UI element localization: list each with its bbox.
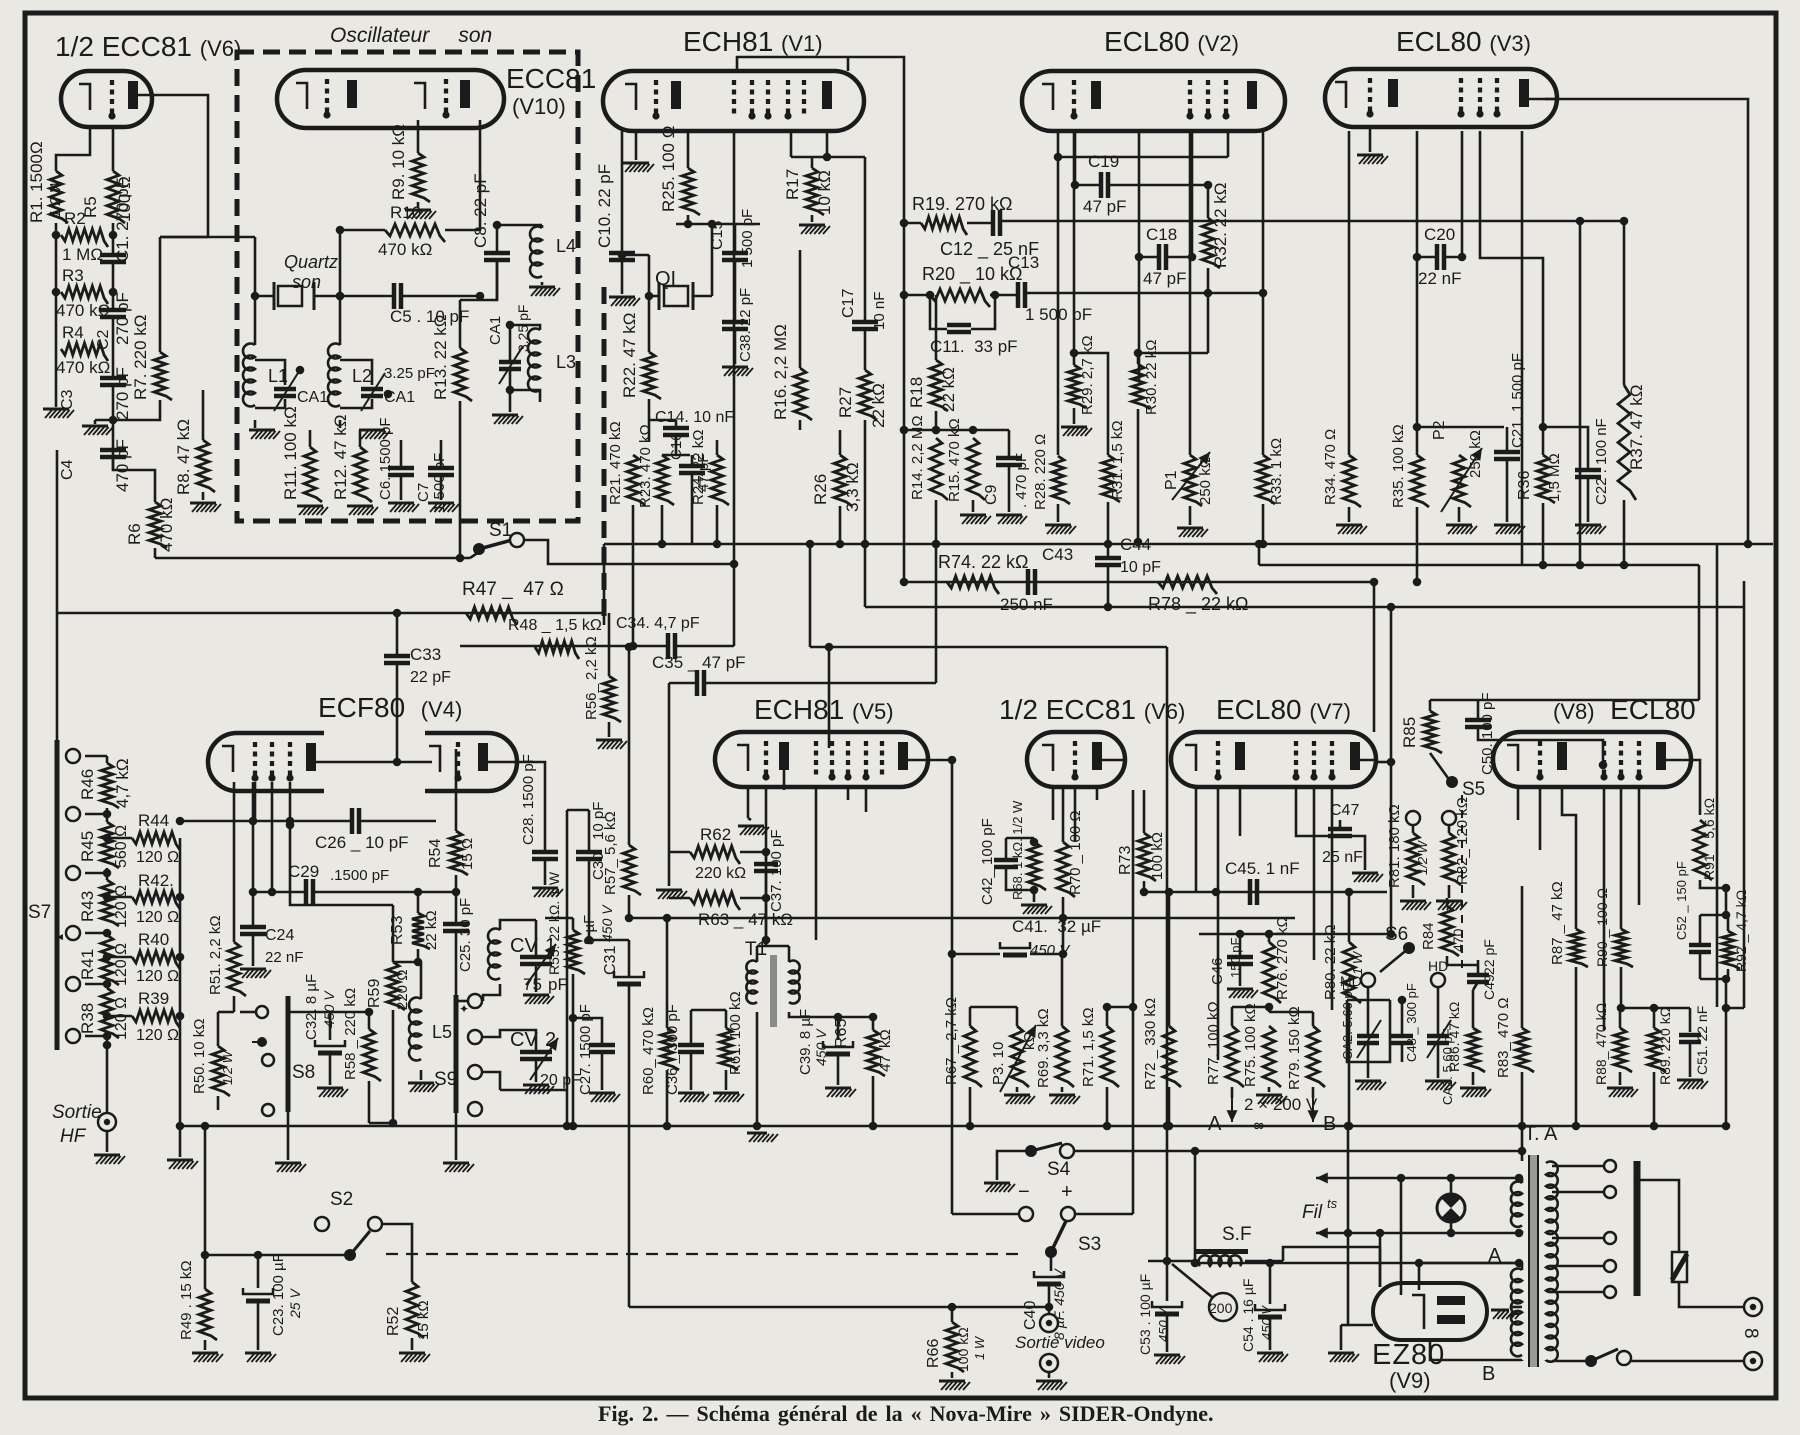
resistor R70 — [1057, 842, 1075, 897]
wire R5-C1 node — [112, 223, 115, 255]
svg-text:Fil: Fil — [1302, 1202, 1323, 1223]
capacitor C14 — [663, 426, 689, 431]
svg-text:R41: R41 — [78, 949, 97, 980]
potentiometer P1 — [1184, 455, 1202, 506]
svg-text:B: B — [1323, 1113, 1336, 1135]
svg-text:R36: R36 — [1516, 471, 1533, 500]
wire R20 row — [904, 294, 930, 297]
svg-text:R12. 47 kΩ: R12. 47 kΩ — [331, 415, 350, 500]
svg-text:25 nF: 25 nF — [1322, 849, 1363, 866]
resistor R13 — [454, 348, 472, 401]
resistor R19 — [921, 217, 967, 235]
svg-text:S1: S1 — [489, 520, 512, 541]
wire A line — [1419, 1262, 1519, 1265]
wire S1 to R13 node — [470, 552, 479, 558]
wire C41 row — [952, 953, 1000, 956]
ground S8 — [275, 1162, 301, 1165]
wire V2 grid drop b — [1138, 131, 1141, 380]
wire C34 row right — [675, 645, 734, 648]
svg-text:25 V: 25 V — [287, 1288, 303, 1319]
svg-text:22 kΩ: 22 kΩ — [423, 910, 440, 950]
svg-text:R69. 3,3 kΩ: R69. 3,3 kΩ — [1035, 1008, 1052, 1088]
ground L2 — [359, 429, 385, 432]
ground R29 — [1061, 426, 1087, 429]
svg-text:270 pF: 270 pF — [113, 367, 132, 420]
svg-text:100 kΩ: 100 kΩ — [955, 1327, 971, 1372]
svg-text:C35 _ 47 pF: C35 _ 47 pF — [652, 653, 746, 672]
svg-text:pF: pF — [548, 975, 568, 994]
svg-text:R17: R17 — [783, 169, 802, 200]
transformer TA core — [1530, 1155, 1537, 1367]
svg-text:R33. 1 kΩ: R33. 1 kΩ — [1268, 438, 1285, 505]
capacitor C30 — [576, 850, 602, 855]
capacitor C40 — [1034, 1271, 1064, 1277]
svg-text:S2: S2 — [330, 1189, 353, 1210]
wire R56 — [608, 613, 611, 676]
wire V2 grid drop c — [1191, 131, 1194, 257]
svg-text:C7: C7 — [415, 483, 432, 502]
S7 contact 3 — [66, 866, 80, 880]
wire CA2a box — [1367, 987, 1370, 1036]
wire C15 top — [676, 223, 760, 226]
capacitor C37 — [754, 862, 778, 867]
wire R92 — [1727, 915, 1730, 931]
svg-text:C43: C43 — [1042, 545, 1073, 564]
S7 contact 1 — [66, 749, 80, 763]
wire R14 bot — [935, 500, 938, 544]
wire bus y613 left drop — [56, 613, 59, 756]
wire main bus y613 — [57, 612, 604, 615]
capacitor C32 — [315, 1040, 345, 1046]
ground V5 cathode — [738, 825, 764, 828]
svg-text:T. A: T. A — [1524, 1123, 1558, 1145]
wire heater bus — [1379, 1247, 1382, 1287]
capacitor C48 — [1391, 1034, 1413, 1039]
tube ECL80 V7 — [1171, 732, 1376, 787]
wire C44 — [1107, 544, 1110, 558]
ground sortie video — [1048, 1372, 1051, 1378]
wire S2 feed — [205, 1254, 350, 1257]
resistor R5 — [107, 171, 125, 223]
svg-text:C31: C31 — [602, 946, 619, 975]
svg-text:8: 8 — [1740, 1328, 1761, 1339]
ground R66 — [939, 1380, 965, 1383]
svg-text:560 Ω: 560 Ω — [113, 825, 130, 868]
wire L3 net — [509, 340, 512, 362]
resistor R2 — [61, 229, 108, 247]
svg-text:Oscillateur son: Oscillateur son — [330, 24, 492, 47]
ground C9 — [996, 514, 1022, 517]
ground C46 — [1239, 964, 1242, 986]
svg-text:L4: L4 — [556, 236, 576, 256]
capacitor C4 — [100, 448, 126, 453]
capacitor C11 — [947, 323, 971, 328]
wire R38 net — [85, 983, 107, 986]
svg-text:R71. 1,5 kΩ: R71. 1,5 kΩ — [1080, 1007, 1097, 1087]
svg-text:C18: C18 — [1146, 225, 1177, 244]
lamp indicator — [1437, 1194, 1465, 1222]
svg-text:120 Ω: 120 Ω — [113, 885, 130, 928]
svg-text:C39. 8 µF: C39. 8 µF — [797, 1009, 814, 1075]
svg-text:120 Ω: 120 Ω — [136, 849, 179, 866]
svg-text:22 nF: 22 nF — [1418, 269, 1461, 288]
svg-text:R6: R6 — [125, 523, 144, 545]
wire R88 — [1619, 1008, 1622, 1028]
resistor R63 — [690, 892, 740, 910]
svg-text:S5: S5 — [1462, 779, 1485, 800]
wire R55 — [572, 918, 575, 930]
wire L1 column — [254, 237, 257, 345]
wire bus y647 stair — [810, 646, 1167, 649]
wire grid riser V5a — [828, 647, 831, 748]
resistor R86 — [1467, 1028, 1485, 1072]
ground R56 — [596, 739, 622, 742]
S9 contact bot — [468, 1102, 482, 1116]
svg-text:ECH81 (V5): ECH81 (V5) — [754, 694, 894, 725]
resistor R22 — [643, 352, 661, 399]
svg-text:470 pF: 470 pF — [113, 439, 132, 492]
wire bus y918 — [905, 917, 1295, 920]
svg-text:R91 _ 5,6 kΩ: R91 _ 5,6 kΩ — [1701, 798, 1717, 880]
wire bus y647 — [460, 645, 668, 648]
ground R17 — [811, 215, 814, 222]
wire C30 — [588, 810, 591, 852]
svg-text:250 kΩ: 250 kΩ — [1197, 457, 1214, 505]
svg-text:C8. 22 pF: C8. 22 pF — [471, 173, 490, 248]
svg-text:450 V: 450 V — [1259, 1305, 1274, 1340]
resistor R28 — [1052, 456, 1070, 504]
ground CV2 — [523, 1084, 549, 1087]
wire S9 net bottom — [500, 1089, 567, 1092]
resistor R79 — [1307, 1026, 1325, 1087]
wire right drop 1699 — [1698, 565, 1701, 700]
resistor R43 — [101, 880, 119, 926]
capacitor C7 — [428, 466, 454, 471]
tube ECL80 V3 — [1325, 69, 1557, 127]
ground P1 — [1177, 527, 1203, 530]
resistor R12 — [354, 447, 372, 502]
wire R10 right — [445, 120, 480, 230]
svg-text:R84: R84 — [1420, 922, 1437, 950]
resistor R15 — [967, 438, 985, 500]
svg-text:250 nF: 250 nF — [1000, 595, 1053, 614]
capacitor C20 — [1435, 244, 1440, 270]
capacitor C3 — [100, 376, 126, 381]
ground R52 — [399, 1352, 425, 1355]
svg-text:R88_ 470 kΩ: R88_ 470 kΩ — [1593, 1003, 1609, 1085]
svg-text:R3: R3 — [62, 266, 84, 285]
wire R4 to ground — [55, 349, 58, 407]
capacitor C17 — [852, 320, 878, 325]
wire R21 bot — [632, 505, 635, 646]
svg-text:R44: R44 — [138, 811, 169, 830]
svg-text:R58 _ 220 kΩ: R58 _ 220 kΩ — [342, 988, 359, 1080]
wire anode line y1263 — [1195, 1262, 1519, 1265]
svg-text:R76. 270 kΩ: R76. 270 kΩ — [1274, 916, 1291, 1000]
capacitor C46 — [1227, 955, 1253, 960]
ground CA2a — [1355, 1080, 1381, 1083]
capacitor C23 — [243, 1288, 273, 1294]
tube ECF80 V4 pentode — [208, 733, 324, 791]
wire V6 anode lead — [137, 95, 208, 237]
wire mid drop x1167 — [1166, 647, 1169, 1261]
capacitor C53 — [1152, 1301, 1182, 1307]
svg-text:C53 . 100 µF: C53 . 100 µF — [1137, 1274, 1153, 1355]
resistor R38 — [101, 988, 119, 1038]
svg-text:R92 _ 4,7 kΩ: R92 _ 4,7 kΩ — [1733, 890, 1749, 972]
switch S6 — [1403, 942, 1415, 954]
svg-text:10 kΩ: 10 kΩ — [815, 170, 834, 215]
svg-text:.1500 pF: .1500 pF — [330, 867, 389, 884]
ground R9 — [417, 202, 420, 208]
svg-text:C42_ 100 pF: C42_ 100 pF — [979, 818, 996, 905]
resistor R3 — [61, 286, 108, 304]
wire R36 — [1542, 427, 1545, 455]
ground R11 — [297, 505, 323, 508]
svg-text:R48 _ 1,5 kΩ: R48 _ 1,5 kΩ — [508, 617, 602, 634]
svg-text:R4: R4 — [62, 323, 84, 342]
tube ECL80 V8 — [1493, 732, 1691, 787]
svg-text:+: + — [1061, 1181, 1073, 1203]
resistor R25 — [682, 168, 700, 215]
svg-text:R66: R66 — [925, 1339, 942, 1368]
tube EZ80 V9 — [1373, 1283, 1487, 1340]
svg-text:R73: R73 — [1117, 846, 1134, 875]
svg-text:R15. 470 kΩ: R15. 470 kΩ — [946, 418, 963, 502]
transformer TA primary upper — [1511, 1182, 1522, 1227]
resistor R60 — [661, 1028, 679, 1070]
capacitor C31 — [614, 971, 644, 977]
svg-text:1/2 W: 1/2 W — [1415, 839, 1430, 875]
wire V8 anode lead — [1691, 760, 1700, 815]
svg-text:C32. 8 µF: C32. 8 µF — [303, 974, 320, 1040]
resistor R52 — [406, 1282, 424, 1338]
wire R35 — [1416, 507, 1419, 582]
wire V3 drop c — [1480, 131, 1543, 427]
ground L4 — [541, 282, 544, 285]
svg-text:8 µF. 450 V: 8 µF. 450 V — [1051, 1267, 1067, 1340]
wire R80 — [1348, 892, 1351, 942]
svg-text:son: son — [292, 272, 321, 292]
resistor R27 — [859, 370, 877, 420]
svg-text:R35. 100 kΩ: R35. 100 kΩ — [1390, 424, 1407, 508]
svg-text:470 kΩ: 470 kΩ — [157, 498, 176, 552]
svg-text:ECL80 (V2): ECL80 (V2) — [1104, 26, 1239, 57]
svg-text:100 kΩ: 100 kΩ — [1149, 832, 1166, 880]
svg-text:R18: R18 — [907, 377, 926, 408]
resistor R9 — [412, 153, 430, 202]
svg-text:R39: R39 — [138, 989, 169, 1008]
wire SF — [1148, 1260, 1200, 1263]
wire R67 — [969, 1007, 972, 1026]
wire C21 — [1506, 427, 1509, 452]
svg-text:C23. 100 µF: C23. 100 µF — [270, 1253, 287, 1336]
svg-text:C29: C29 — [288, 862, 319, 881]
svg-text:S7: S7 — [28, 902, 51, 923]
ground C6 — [400, 475, 403, 500]
svg-text:C11. 33 pF: C11. 33 pF — [930, 337, 1018, 356]
ground L5 — [408, 1082, 434, 1085]
svg-text:R87 _ 47 kΩ: R87 _ 47 kΩ — [1549, 881, 1566, 965]
capacitor C16 — [679, 464, 705, 469]
svg-text:15 Ω: 15 Ω — [459, 838, 476, 870]
capacitor C24 — [240, 925, 266, 930]
ground sortie HF — [106, 1131, 109, 1152]
resistor R7 — [154, 352, 172, 400]
svg-text:C38. 22 pF: C38. 22 pF — [737, 288, 754, 362]
resistor R39 — [132, 1010, 180, 1028]
wire C49 — [1477, 960, 1480, 975]
svg-text:R59: R59 — [366, 979, 383, 1008]
wire V6 grid to R5 — [112, 129, 115, 171]
wire S8 down — [287, 1112, 290, 1160]
resistor R78 — [1158, 576, 1217, 594]
svg-text:◄: ◄ — [55, 932, 65, 943]
connector sortie video 2 — [1040, 1354, 1058, 1372]
wire grid riser V5b — [935, 544, 938, 683]
resistor R24 — [711, 455, 729, 505]
S8 contact small — [256, 1006, 268, 1018]
resistor R18 — [930, 360, 948, 411]
svg-text:ECH81 (V1): ECH81 (V1) — [683, 26, 823, 57]
svg-text:R23. 470 kΩ: R23. 470 kΩ — [637, 424, 654, 508]
capacitor C26 — [350, 808, 355, 834]
wire R49 — [204, 1126, 207, 1289]
wire V6m pin drops — [1052, 787, 1055, 820]
wire C9 — [1008, 430, 1011, 458]
svg-text:R80. 22 kΩ: R80. 22 kΩ — [1322, 925, 1339, 1000]
tube 1/2 ECC81 V6 mid — [1027, 732, 1125, 787]
svg-text:C40: C40 — [1022, 1301, 1039, 1330]
resistor R49 — [199, 1289, 217, 1340]
svg-text:R83_ 470 Ω: R83_ 470 Ω — [1495, 998, 1512, 1078]
resistor R77 — [1226, 1026, 1244, 1087]
svg-text:P3. 10: P3. 10 — [990, 1042, 1007, 1085]
svg-text:S3: S3 — [1078, 1234, 1101, 1255]
wire right drop 1717 — [1716, 544, 1719, 1007]
wire R87 — [1575, 967, 1578, 1126]
svg-text:R51. 2,2 kΩ: R51. 2,2 kΩ — [207, 915, 224, 995]
capacitor C28 — [532, 850, 558, 855]
S7 contact 2 — [66, 807, 80, 821]
wire C4 to R6 — [113, 458, 155, 502]
resistor R45 — [101, 822, 119, 868]
resistor R53 — [412, 913, 430, 949]
trimmer CA1 on L2 — [340, 360, 372, 385]
ground C32 — [317, 1087, 343, 1090]
svg-text:S6: S6 — [1385, 924, 1408, 945]
resistor R17 — [806, 168, 824, 215]
wire R63 — [669, 897, 690, 900]
capacitor C47 — [1328, 827, 1352, 832]
svg-text:47: 47 — [877, 1055, 894, 1072]
inductor L1 — [243, 344, 255, 407]
ground R88 — [1607, 1087, 1633, 1090]
svg-text:R8. 47 kΩ: R8. 47 kΩ — [174, 419, 193, 495]
capacitor C19 — [1099, 172, 1104, 198]
wire heater drop — [1400, 1178, 1403, 1295]
resistor R71 — [1101, 1026, 1119, 1087]
ground R63 left — [656, 889, 682, 892]
transformer TA secondary — [1546, 1162, 1558, 1362]
ground R15 — [972, 500, 975, 512]
wire ladder top — [85, 755, 107, 758]
svg-text:120 Ω: 120 Ω — [113, 943, 130, 986]
wire R42 — [107, 896, 132, 899]
resistor R48 — [535, 641, 579, 659]
svg-text:R81. 180 kΩ: R81. 180 kΩ — [1386, 804, 1403, 888]
resistor R88 — [1614, 1028, 1632, 1072]
wire R70 — [1062, 787, 1065, 842]
wire plus terminal — [1061, 1207, 1075, 1221]
wire R34 — [1348, 131, 1351, 455]
svg-text:C28. 1500 pF: C28. 1500 pF — [520, 754, 537, 845]
wire P1 — [1189, 131, 1192, 455]
svg-text:✦: ✦ — [459, 1002, 469, 1016]
ground CV1 — [535, 964, 538, 992]
wire R1-R2 node — [55, 223, 58, 349]
svg-text:R24. 22 kΩ: R24. 22 kΩ — [690, 430, 707, 505]
svg-text:R54: R54 — [427, 839, 444, 868]
wire S4 left — [997, 1151, 1031, 1180]
wire R53 — [417, 892, 420, 913]
resistor R87 — [1570, 929, 1588, 967]
wire TA tap 1 — [1552, 1165, 1604, 1168]
resistor R30 — [1132, 364, 1150, 409]
wire R19 row — [904, 222, 921, 225]
svg-text:C33: C33 — [410, 645, 441, 664]
svg-text:C16: C16 — [668, 432, 685, 460]
svg-text:R31. 1,5 kΩ: R31. 1,5 kΩ — [1109, 420, 1126, 500]
wire R35 top row — [1417, 426, 1504, 429]
wire R6 to S1 — [154, 548, 157, 558]
wire R69 — [1061, 954, 1064, 1026]
connector mains 1 — [1744, 1298, 1762, 1316]
wire ladder right rail — [179, 838, 182, 1157]
svg-text:10 pF: 10 pF — [1120, 559, 1161, 576]
svg-text:C20: C20 — [1424, 225, 1455, 244]
svg-text:(V8) ECL80: (V8) ECL80 — [1553, 694, 1696, 725]
svg-text:R25. 100 Ω: R25. 100 Ω — [659, 126, 678, 212]
wire V8 pin drops — [1517, 787, 1520, 820]
svg-text:R62: R62 — [700, 825, 731, 844]
wire R61 — [725, 1010, 728, 1028]
connector sortie video — [1040, 1314, 1058, 1332]
svg-text:C10. 22 pF: C10. 22 pF — [595, 164, 614, 248]
trimmer CA2 b — [1427, 1034, 1449, 1039]
resistor R31 — [1102, 455, 1120, 502]
resistor R21 — [627, 455, 645, 505]
svg-text:CV: CV — [510, 935, 538, 957]
oscillator dashed stub — [602, 287, 607, 625]
wire V7 pin drops — [1195, 787, 1198, 892]
capacitor C44 — [1095, 556, 1121, 561]
svg-text:HD: HD — [1428, 958, 1448, 974]
capacitor C1 — [100, 253, 126, 258]
wire V2 pentode drop — [1262, 131, 1265, 455]
wire C18 row — [1139, 256, 1159, 259]
svg-text:47 pF: 47 pF — [1083, 197, 1126, 216]
svg-text:C26 _ 10 pF: C26 _ 10 pF — [315, 833, 409, 852]
wire C29 row — [253, 891, 306, 894]
svg-text:C45. 1 nF: C45. 1 nF — [1225, 859, 1300, 878]
trimmer CA1 on L1 — [255, 360, 285, 385]
svg-text:(V10): (V10) — [512, 94, 566, 119]
wire C40 bottom — [1048, 1284, 1051, 1307]
ground C28 — [532, 887, 558, 890]
svg-text:450 V: 450 V — [1030, 942, 1071, 959]
svg-text:R11. 100 kΩ: R11. 100 kΩ — [281, 406, 300, 500]
